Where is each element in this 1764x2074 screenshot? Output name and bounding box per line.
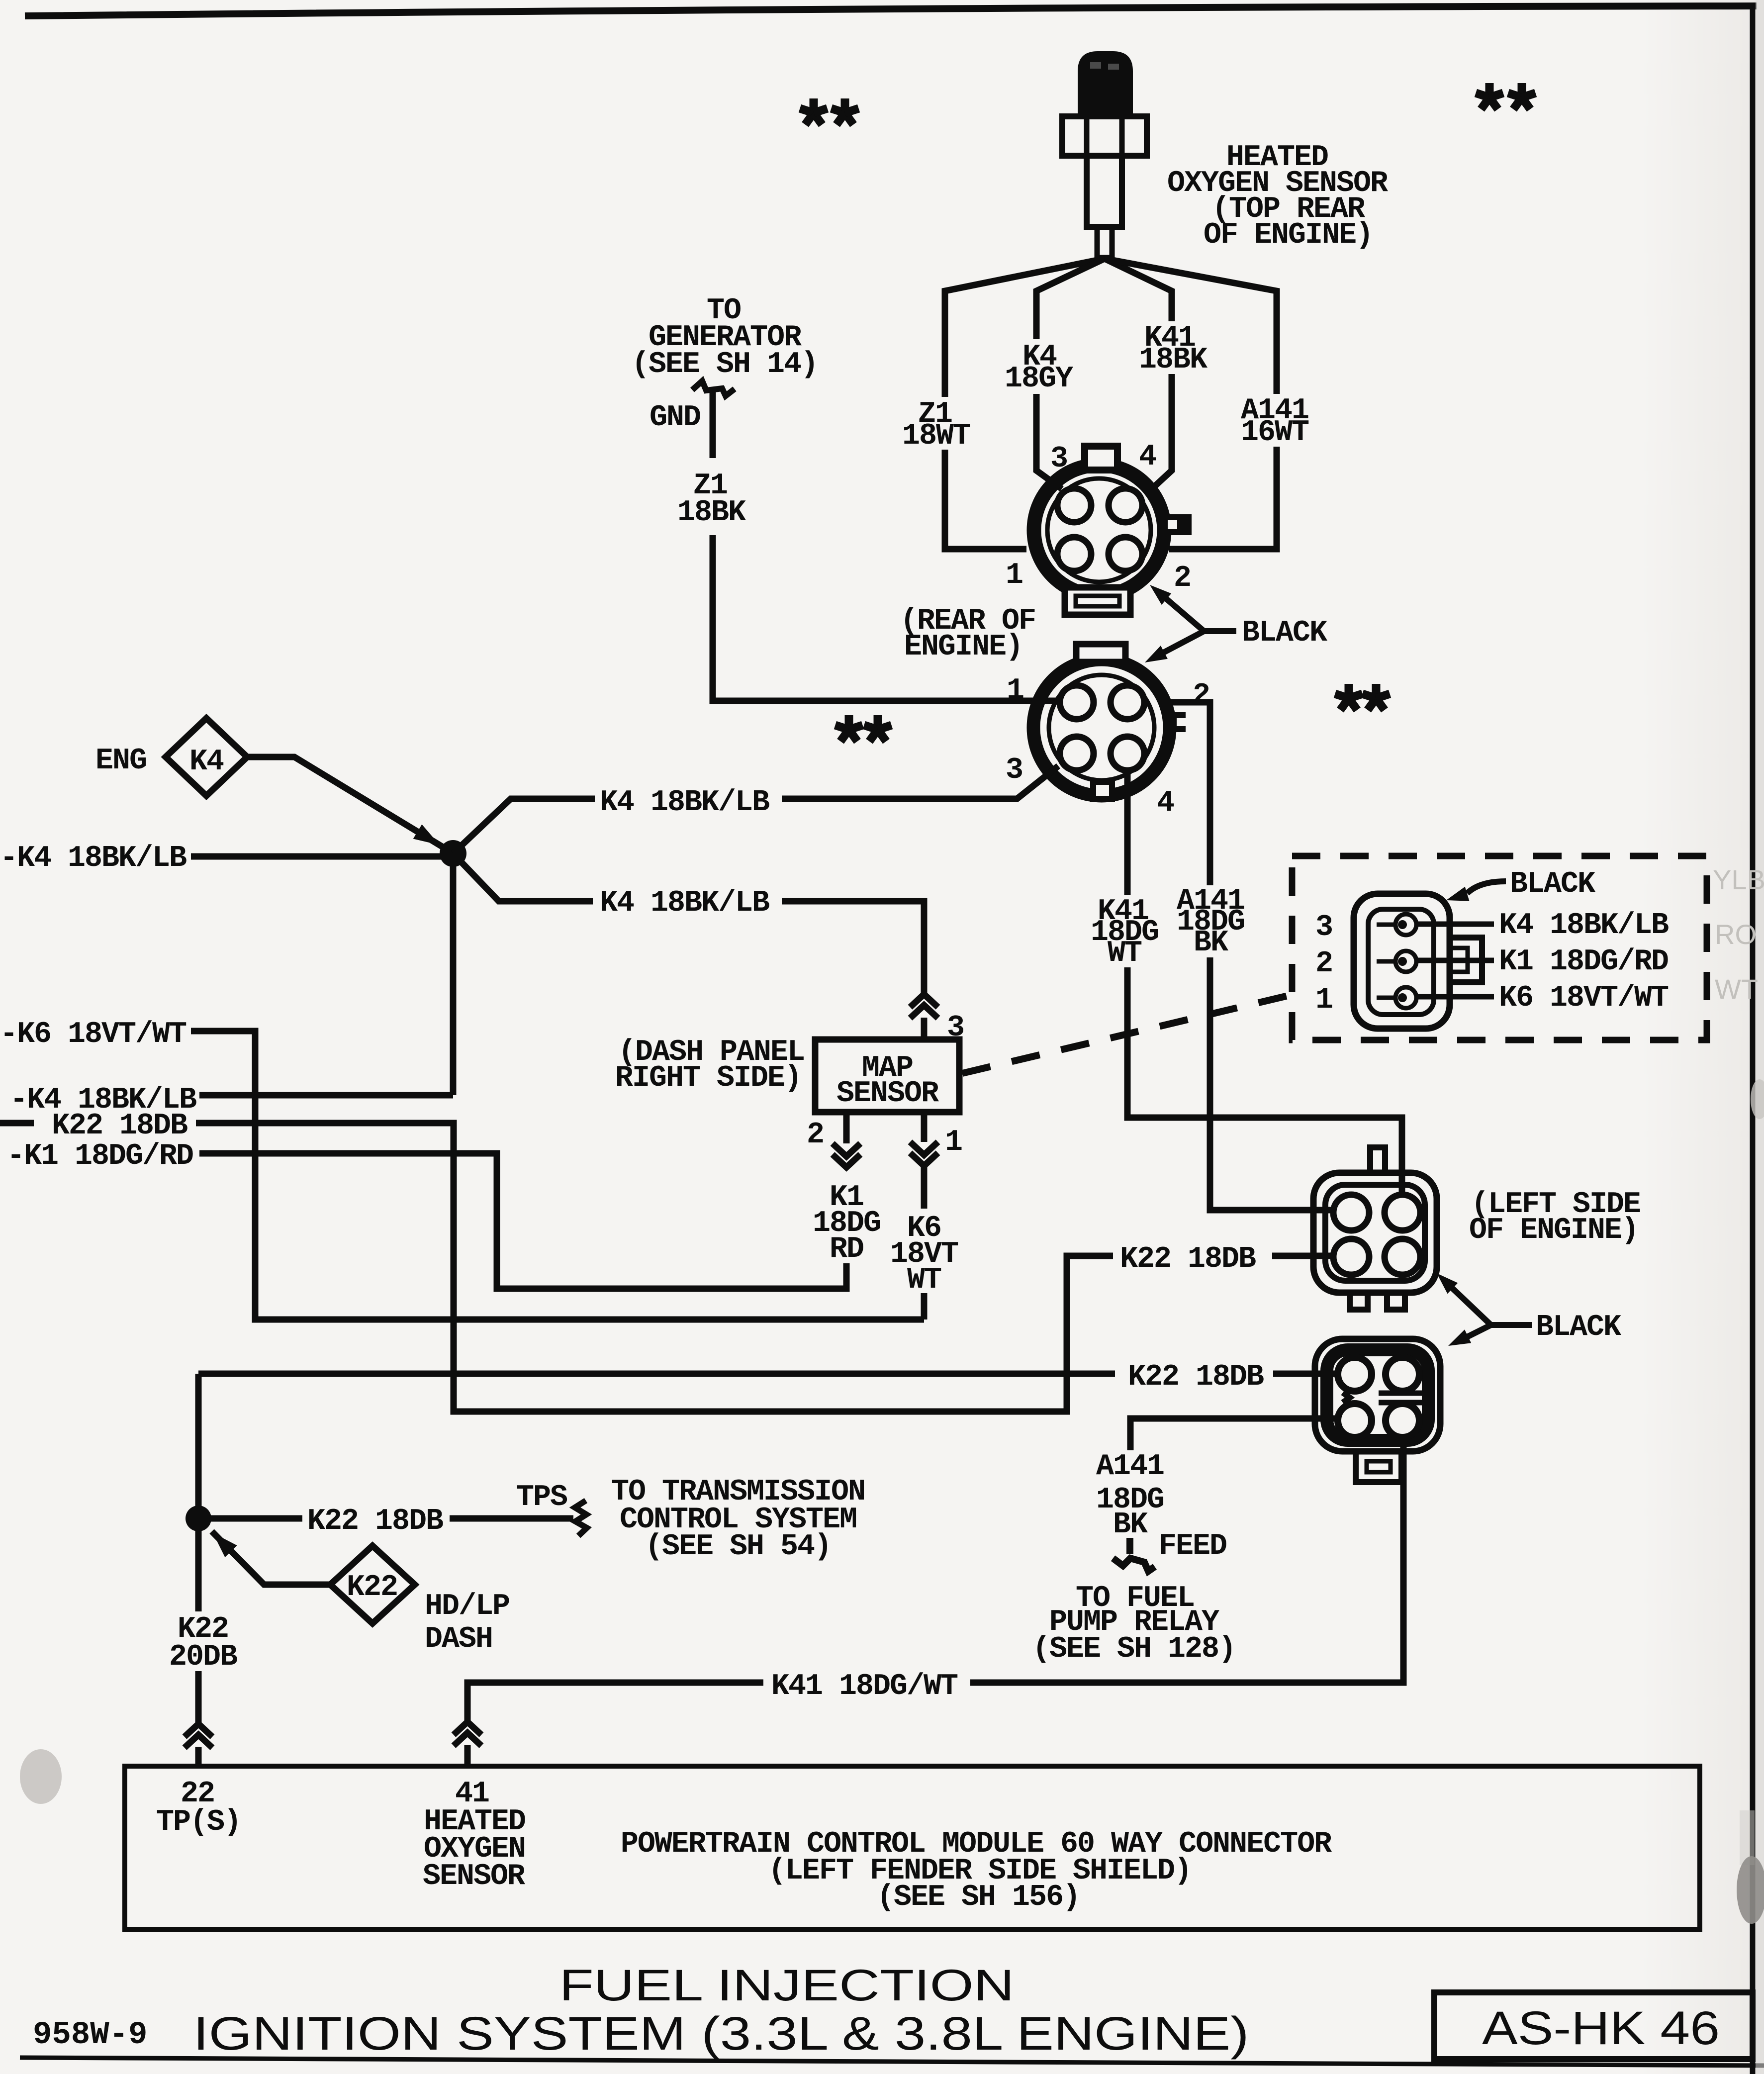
heated oxygen sensor label bbox=[1167, 141, 1388, 252]
oxygen sensor tip bbox=[1097, 227, 1112, 258]
svg-text:K22: K22 bbox=[347, 1571, 397, 1604]
svg-text:BLACK: BLACK bbox=[1242, 616, 1327, 650]
C1 right tab bbox=[1168, 514, 1192, 535]
svg-text:1: 1 bbox=[1007, 674, 1023, 708]
sheet id box AS-HK 46 bbox=[1434, 1992, 1753, 2059]
C1 pin 3 cavity bbox=[1057, 488, 1091, 522]
C1 pin 2 cavity bbox=[1109, 537, 1142, 571]
PCM pin 41 connector chevron bbox=[454, 1722, 481, 1746]
wire J1 down branch bbox=[450, 853, 457, 1095]
svg-text:TP(S): TP(S) bbox=[156, 1805, 241, 1839]
C2 pin 3 cavity bbox=[1060, 737, 1094, 770]
svg-text:YLB: YLB bbox=[1713, 864, 1764, 895]
asterisks top-left bbox=[800, 98, 827, 125]
wire label K6 18VT WT bbox=[890, 1212, 958, 1297]
svg-text:WT: WT bbox=[1108, 937, 1142, 970]
TO FUEL PUMP RELAY (SEE SH 128) label bbox=[1032, 1582, 1235, 1666]
svg-text:OF ENGINE): OF ENGINE) bbox=[1204, 218, 1373, 252]
FEED off-sheet break symbol bbox=[1113, 1538, 1155, 1571]
svg-text:GND: GND bbox=[650, 401, 700, 435]
PCM box title bbox=[621, 1827, 1332, 1914]
svg-text:K22 18DB: K22 18DB bbox=[307, 1505, 443, 1538]
svg-text:BLACK: BLACK bbox=[1536, 1311, 1621, 1344]
svg-text:4: 4 bbox=[1157, 786, 1174, 820]
scan smudge bottom-right bbox=[1737, 1856, 1764, 1924]
engine connector lower body bbox=[1315, 1339, 1440, 1451]
svg-text:BLACK: BLACK bbox=[1510, 867, 1595, 901]
TPS off-sheet break symbol bbox=[575, 1501, 587, 1536]
wire K22 20DB down to PCM bbox=[195, 1518, 202, 1611]
svg-text:2: 2 bbox=[1315, 947, 1332, 981]
MAP pin 2 wire and chevron bbox=[843, 1112, 850, 1143]
wire from K4 diamond to junction bbox=[247, 757, 446, 849]
MAP pin 1 wire and chevron bbox=[921, 1112, 928, 1142]
wire K41 from C2 pin 4 down and over to engine connector bbox=[1124, 770, 1131, 895]
page bottom border bbox=[20, 2058, 1764, 2066]
svg-text:RO: RO bbox=[1715, 919, 1757, 950]
(DASH PANEL RIGHT SIDE) label bbox=[615, 1036, 804, 1095]
C2 right tab bbox=[1167, 712, 1186, 732]
scan smudge left bbox=[20, 1749, 62, 1804]
MAP pin 3 connector chevron bbox=[910, 994, 938, 1018]
PCM 60 way connector box bbox=[125, 1766, 1700, 1929]
lower connector center keys bbox=[1343, 1393, 1350, 1403]
wire label K1 18DG RD bbox=[813, 1181, 880, 1266]
svg-text:K4 18BK/LB: K4 18BK/LB bbox=[1499, 909, 1669, 943]
arrowhead into junction bbox=[413, 825, 440, 846]
svg-text:K22 18DB: K22 18DB bbox=[1120, 1242, 1256, 1276]
svg-text:K4 18BK/LB: K4 18BK/LB bbox=[600, 786, 769, 820]
PCM pin 22 label bbox=[156, 1777, 241, 1839]
svg-text:HD/LP: HD/LP bbox=[425, 1590, 509, 1623]
wire label Z1 18WT bbox=[902, 397, 970, 453]
svg-text:OF ENGINE): OF ENGINE) bbox=[1469, 1214, 1638, 1247]
inset wire to K6 label bbox=[1417, 994, 1494, 1000]
svg-text:1: 1 bbox=[945, 1126, 962, 1159]
wire label A141 16WT bbox=[1241, 394, 1309, 450]
wire label A141 18DG BK (feed) bbox=[1096, 1450, 1164, 1542]
svg-text:A141: A141 bbox=[1096, 1450, 1164, 1484]
detail inset dashed box bbox=[1292, 856, 1707, 1040]
lower engine connector pins bbox=[1338, 1357, 1372, 1391]
MAP sensor box bbox=[815, 1039, 959, 1112]
inset pin 1 terminal bbox=[1395, 987, 1416, 1008]
inset wire to K1 label bbox=[1417, 958, 1494, 963]
MAP connector body in inset bbox=[1354, 894, 1450, 1029]
BLACK leader lines bbox=[1159, 592, 1236, 655]
BLACK arrowhead upper bbox=[1150, 585, 1171, 605]
svg-text:18BK: 18BK bbox=[1139, 343, 1207, 377]
oxygen sensor cap bbox=[1078, 51, 1133, 118]
wire K41 into PCM pin 41 bbox=[467, 1683, 763, 1723]
page top border bbox=[25, 6, 1757, 16]
svg-text:16WT: 16WT bbox=[1241, 416, 1309, 450]
C2 pin 2 cavity bbox=[1111, 685, 1144, 719]
wire fan from sensor bbox=[945, 259, 1277, 549]
arrowhead into J2 bbox=[213, 1533, 237, 1557]
inset BLACK leader and arrowhead bbox=[1467, 881, 1506, 893]
svg-text:TPS: TPS bbox=[516, 1481, 567, 1514]
svg-text:WT: WT bbox=[1715, 973, 1758, 1005]
oxygen sensor connector C1 ring bbox=[1034, 465, 1164, 595]
svg-text:AS-HK 46: AS-HK 46 bbox=[1482, 2002, 1720, 2055]
C2 bottom tab bbox=[1093, 782, 1112, 799]
svg-text:2: 2 bbox=[807, 1118, 824, 1152]
wire A141 from C2 pin 2 down bbox=[1170, 702, 1210, 885]
splice diamond K4 bbox=[166, 718, 247, 796]
svg-text:20DB: 20DB bbox=[169, 1640, 237, 1674]
svg-text:-K1 18DG/RD: -K1 18DG/RD bbox=[7, 1139, 193, 1173]
wire Z1 from generator upper segment bbox=[710, 392, 716, 458]
svg-text:1: 1 bbox=[1315, 983, 1332, 1017]
lower engine connector bottom tab bbox=[1356, 1451, 1401, 1482]
svg-text:FEED: FEED bbox=[1159, 1529, 1226, 1563]
asterisks left of C2 bbox=[835, 715, 862, 742]
C2 top tab bbox=[1076, 644, 1125, 662]
svg-text:(SEE SH 128): (SEE SH 128) bbox=[1032, 1632, 1235, 1666]
svg-text:SENSOR: SENSOR bbox=[423, 1860, 525, 1893]
svg-text:IGNITION SYSTEM (3.3L & 3.8L E: IGNITION SYSTEM (3.3L & 3.8L ENGINE) bbox=[193, 2007, 1249, 2060]
BLACK arrowhead to lower connector bbox=[1448, 1329, 1471, 1346]
splice diamond K22 bbox=[330, 1546, 415, 1623]
svg-text:DASH: DASH bbox=[425, 1622, 492, 1656]
svg-text:ENGINE): ENGINE) bbox=[904, 630, 1022, 664]
C1 top key tab bbox=[1085, 446, 1117, 470]
svg-text:(SEE SH 54): (SEE SH 54) bbox=[645, 1530, 831, 1564]
C1 bottom tab bbox=[1065, 587, 1130, 615]
svg-text:3: 3 bbox=[1050, 442, 1067, 476]
svg-text:3: 3 bbox=[1006, 754, 1022, 787]
wire J1 lower branch bbox=[453, 853, 593, 901]
wire K41 from lower connector to PCM run bbox=[970, 1436, 1403, 1683]
inset cavity bars bbox=[1377, 923, 1395, 927]
svg-text:3: 3 bbox=[947, 1011, 964, 1045]
inset pin 2 terminal bbox=[1395, 951, 1416, 972]
svg-text:(SEE SH 156): (SEE SH 156) bbox=[877, 1881, 1080, 1914]
dashed leader from MAP sensor to detail box bbox=[962, 995, 1292, 1073]
svg-text:K4: K4 bbox=[189, 745, 224, 779]
svg-text:K6 18VT/WT: K6 18VT/WT bbox=[1499, 981, 1669, 1015]
svg-text:4: 4 bbox=[1139, 440, 1156, 474]
svg-text:RIGHT SIDE): RIGHT SIDE) bbox=[615, 1061, 801, 1095]
svg-text:K22 18DB: K22 18DB bbox=[52, 1109, 187, 1143]
svg-text:K41 18DG/WT: K41 18DG/WT bbox=[771, 1670, 958, 1703]
wire row4 K22 18DB bbox=[0, 1120, 34, 1127]
faint handwriting right margin bbox=[1713, 864, 1764, 1005]
wire K6 stub below label bbox=[921, 1293, 928, 1320]
upper engine connector top key bbox=[1370, 1147, 1385, 1173]
wire to C2 pin 3 bbox=[782, 766, 1058, 799]
wire label K22 20DB bbox=[169, 1612, 237, 1674]
BLACK arrowhead lower bbox=[1145, 646, 1168, 662]
wire label K41 18BK bbox=[1139, 321, 1207, 377]
svg-text:958W-9: 958W-9 bbox=[33, 2017, 147, 2053]
svg-text:18BK: 18BK bbox=[677, 496, 746, 530]
C2 pin 1 cavity bbox=[1060, 685, 1094, 719]
svg-text:WT: WT bbox=[907, 1263, 941, 1297]
junction node J2 bbox=[186, 1506, 211, 1531]
wire to MAP sensor pin 3 bbox=[782, 901, 924, 994]
oxygen sensor hex nut bbox=[1062, 116, 1147, 156]
MAP connector right latch bbox=[1450, 938, 1482, 982]
svg-text:K1 18DG/RD: K1 18DG/RD bbox=[1499, 945, 1668, 979]
svg-text:18GY: 18GY bbox=[1005, 362, 1073, 396]
upper engine connector bottom lugs bbox=[1350, 1293, 1368, 1310]
off-sheet break symbol at generator bbox=[692, 381, 735, 396]
engine connector upper (left side of engine) body bbox=[1313, 1173, 1437, 1293]
wire K22 long run to lower engine connector bbox=[198, 1371, 1115, 1377]
svg-text:ENG: ENG bbox=[95, 744, 146, 778]
wire K22 18DB to TPS bbox=[198, 1515, 302, 1522]
wire from K22 diamond to junction J2 bbox=[212, 1531, 330, 1585]
page right border bbox=[1750, 5, 1756, 2074]
svg-text:SENSOR: SENSOR bbox=[836, 1077, 939, 1111]
C1 pin 1 cavity bbox=[1057, 537, 1091, 571]
asterisks top-right bbox=[1476, 83, 1503, 109]
upper engine connector pins bbox=[1333, 1195, 1369, 1230]
TO GENERATOR (SEE SH 14) label bbox=[632, 294, 818, 381]
junction node J1 bbox=[440, 840, 466, 867]
C1 pin 4 cavity bbox=[1109, 488, 1142, 522]
svg-text:BK: BK bbox=[1113, 1508, 1148, 1542]
wire label A141 18DG BK bbox=[1177, 884, 1244, 960]
svg-text:RD: RD bbox=[830, 1232, 863, 1266]
wire label Z1 18BK bbox=[677, 469, 746, 530]
svg-text:1: 1 bbox=[1006, 559, 1022, 592]
svg-text:(SEE SH 14): (SEE SH 14) bbox=[632, 348, 818, 381]
inset wire to K4 label bbox=[1417, 922, 1494, 927]
BLACK arrowhead to upper connector bbox=[1437, 1273, 1458, 1294]
wire K22 vertical to junction J2 bbox=[195, 1374, 202, 1518]
wire Z1 18BK down to lower connector bbox=[713, 535, 1060, 701]
svg-text:2: 2 bbox=[1174, 562, 1191, 595]
svg-text:18WT: 18WT bbox=[902, 419, 970, 453]
C2 pin 4 cavity bbox=[1111, 737, 1144, 770]
svg-text:K4 18BK/LB: K4 18BK/LB bbox=[600, 886, 769, 920]
PCM pin 22 connector chevron bbox=[185, 1724, 212, 1748]
wire A141 feed from lower connector pin bbox=[1130, 1418, 1337, 1450]
harness connector C2 ring bbox=[1033, 660, 1170, 796]
asterisks right of C2 bbox=[1335, 684, 1362, 710]
wire label K41 18DG WT bbox=[1091, 895, 1158, 970]
page edge shading right of border bbox=[1756, 0, 1764, 2074]
wire label K4 18GY bbox=[1005, 340, 1073, 396]
svg-text:K22 18DB: K22 18DB bbox=[1128, 1360, 1264, 1394]
inset pin 3 terminal bbox=[1395, 914, 1416, 935]
svg-text:FUEL INJECTION: FUEL INJECTION bbox=[559, 1960, 1015, 2010]
svg-text:3: 3 bbox=[1315, 911, 1332, 944]
svg-text:BK: BK bbox=[1194, 926, 1228, 960]
oxygen sensor shaft bbox=[1087, 156, 1122, 227]
svg-text:-K6 18VT/WT: -K6 18VT/WT bbox=[0, 1018, 186, 1051]
TO TRANSMISSION CONTROL SYSTEM (SEE SH 54) label bbox=[611, 1475, 865, 1564]
wire J1 upper branch to K4 label bbox=[453, 799, 595, 853]
svg-text:-K4 18BK/LB: -K4 18BK/LB bbox=[0, 842, 186, 875]
